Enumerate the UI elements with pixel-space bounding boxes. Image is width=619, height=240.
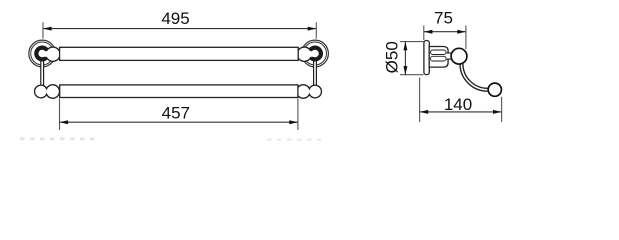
dimension line 75 bbox=[424, 31, 466, 33]
dimension line 457 bbox=[60, 121, 298, 123]
top towel bar bbox=[60, 47, 299, 60]
dimension line diam 50 (vertical) bbox=[404, 42, 406, 75]
collar rib 1 bbox=[431, 50, 447, 55]
extension line left (140) bbox=[419, 78, 421, 123]
extension line right (457) bbox=[297, 99, 299, 131]
ribbed collar bbox=[429, 47, 448, 68]
faint cropped text remnants bottom-middle bbox=[267, 138, 327, 140]
right collar ring (C shape) bbox=[309, 48, 321, 60]
dimension line 140 bbox=[420, 111, 502, 113]
pivot ball bbox=[451, 48, 467, 64]
top-left bar cap bbox=[43, 47, 61, 61]
bottom-right end ball with cap (peanut) bbox=[297, 85, 322, 98]
left collar ring (C shape) bbox=[36, 48, 48, 60]
arm end ball bbox=[488, 83, 501, 96]
svg-text:457: 457 bbox=[162, 103, 190, 122]
curved arm (two arcs) bbox=[460, 64, 488, 92]
extension line left (457) bbox=[59, 99, 61, 131]
extension lines (diam 50) bbox=[400, 41, 424, 43]
extension line right (495) bbox=[315, 22, 317, 38]
dimension line 495 bbox=[43, 28, 316, 30]
svg-text:75: 75 bbox=[434, 9, 453, 28]
left wall flange outer circles bbox=[29, 40, 56, 67]
extension line right (140) bbox=[501, 97, 503, 122]
left vertical post bbox=[41, 58, 44, 86]
svg-text:Ø50: Ø50 bbox=[382, 41, 401, 73]
wall plate (side profile) bbox=[424, 41, 429, 75]
bottom-left end ball with cap (peanut) bbox=[35, 85, 60, 98]
bottom towel bar bbox=[60, 85, 298, 98]
faint cropped text remnants bottom-left bbox=[20, 138, 97, 141]
svg-text:140: 140 bbox=[444, 95, 472, 114]
extension line right (75) bbox=[465, 26, 467, 50]
collar rib 2 bbox=[431, 56, 447, 61]
top-right bar cap bbox=[297, 47, 315, 61]
svg-text:495: 495 bbox=[161, 9, 189, 28]
extension line left (75) bbox=[423, 26, 425, 41]
right wall flange outer circles bbox=[302, 40, 329, 67]
extension line left (495) bbox=[42, 22, 44, 38]
neck bbox=[447, 53, 454, 59]
right vertical post bbox=[314, 58, 317, 86]
